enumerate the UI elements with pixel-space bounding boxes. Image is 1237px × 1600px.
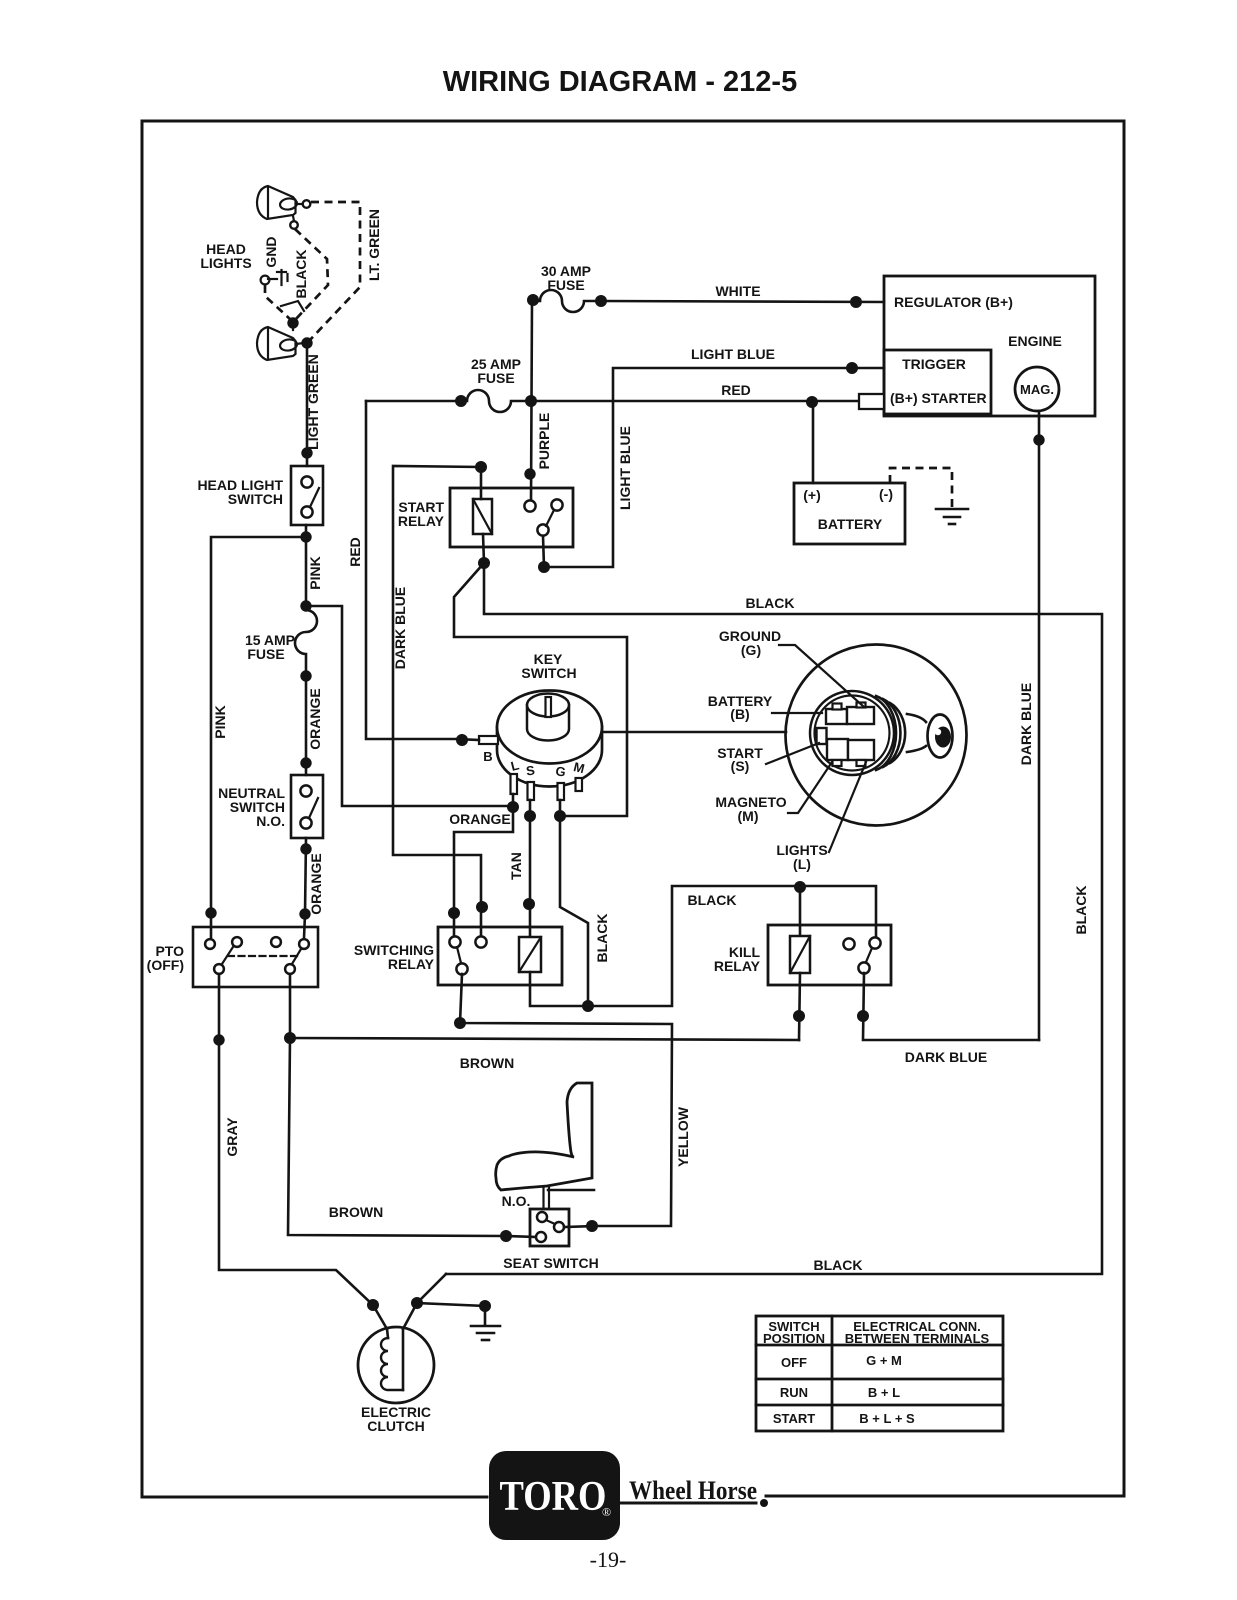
svg-text:SWITCH: SWITCH: [521, 665, 576, 681]
svg-text:PINK: PINK: [307, 556, 323, 589]
key switch SW3 (side view): [497, 691, 602, 787]
wire orange down to PTO: [305, 838, 306, 914]
node: light green at lamp2 terminal: [301, 337, 312, 348]
svg-text:WHITE: WHITE: [715, 283, 760, 299]
terminal M tab: [827, 739, 848, 760]
seat base line: [548, 1189, 594, 1192]
svg-text:S: S: [525, 762, 536, 778]
wire orange L to switching relay: [454, 807, 513, 938]
wire orange down: [305, 676, 308, 775]
svg-text:(+): (+): [803, 487, 821, 503]
fuse F2 25 AMP on red feed: [366, 390, 537, 412]
svg-text:DARK BLUE: DARK BLUE: [1018, 683, 1034, 765]
wire light green down to head light switch: [306, 345, 309, 466]
wire relay coil top: [480, 467, 483, 499]
wire gray diagonal into clutch: [373, 1305, 387, 1329]
wire red from fuse to starter terminal: [531, 400, 860, 403]
svg-text:ENGINE: ENGINE: [1008, 333, 1062, 349]
wire white to regulator: [601, 301, 884, 302]
node below neutral switch: [300, 843, 311, 854]
headlight lamp 2 (lower): [257, 327, 303, 360]
svg-text:DARK BLUE: DARK BLUE: [392, 587, 408, 669]
wire dark blue: relay feed loop: [393, 466, 481, 938]
svg-text:OFF: OFF: [781, 1355, 807, 1370]
seat switch plunger: [542, 1187, 544, 1209]
wire kill relay coil bottom to brown: [799, 973, 800, 1040]
svg-text:-19-: -19-: [590, 1547, 627, 1572]
terminal G tab: [847, 707, 874, 724]
svg-text:RED: RED: [721, 382, 751, 398]
gnd terminal circle: [261, 276, 270, 285]
kill relay K3: [768, 925, 891, 985]
svg-text:(-): (-): [879, 486, 893, 502]
svg-text:FUSE: FUSE: [247, 646, 284, 662]
terminal S tab: [817, 728, 827, 744]
seat switch SW4: [530, 1209, 569, 1246]
svg-text:WIRING DIAGRAM - 212-5: WIRING DIAGRAM - 212-5: [443, 66, 797, 98]
svg-text:REGULATOR (B+): REGULATOR (B+): [894, 294, 1013, 310]
svg-text:BROWN: BROWN: [329, 1204, 383, 1220]
trigger / starter box: [884, 350, 991, 414]
svg-text:START: START: [773, 1411, 815, 1426]
wire from key switch to connector view: [602, 731, 786, 734]
pin L: [511, 774, 518, 794]
svg-text:BROWN: BROWN: [460, 1055, 514, 1071]
svg-text:RUN: RUN: [780, 1385, 808, 1400]
node pink/orange junction: [300, 600, 311, 611]
svg-text:(S): (S): [731, 758, 750, 774]
wire brown horizontal to kill relay coil: [290, 1038, 799, 1040]
svg-text:LIGHTS: LIGHTS: [200, 255, 251, 271]
black label leader: [281, 301, 304, 311]
battery B1: [794, 483, 905, 544]
svg-text:TRIGGER: TRIGGER: [902, 356, 966, 372]
svg-text:YELLOW: YELLOW: [675, 1106, 691, 1167]
engine box: [884, 276, 1095, 416]
svg-text:B: B: [483, 749, 492, 764]
svg-text:RED: RED: [347, 537, 363, 567]
wire lt. green (dashed) lamp1 to lamp2: [309, 202, 360, 341]
wire red down-left to key switch B: [366, 401, 457, 739]
svg-text:RELAY: RELAY: [398, 513, 445, 529]
svg-text:BLACK: BLACK: [293, 250, 309, 299]
start relay K1: [450, 488, 573, 547]
chassis ground symbol (clutch): [471, 1326, 500, 1340]
node PTO pin4: [299, 908, 310, 919]
wire brown down to seat switch: [288, 1038, 537, 1237]
pin B: [479, 736, 498, 744]
battery ground symbol: [936, 509, 968, 524]
wire start relay switch output (light blue): [543, 536, 544, 567]
pin S: [528, 782, 535, 800]
wire tan S to switching relay coil: [529, 816, 532, 937]
svg-text:Wheel Horse: Wheel Horse: [629, 1476, 757, 1505]
svg-text:M: M: [572, 759, 586, 776]
svg-text:TAN: TAN: [508, 852, 524, 880]
fuse F1 30 AMP: [527, 290, 607, 312]
svg-text:RELAY: RELAY: [714, 958, 761, 974]
node below head light switch: [300, 531, 311, 542]
svg-text:L: L: [509, 757, 520, 773]
svg-text:(OFF): (OFF): [147, 957, 184, 973]
svg-text:FUSE: FUSE: [547, 277, 584, 293]
node S / tan: [524, 810, 536, 822]
svg-text:(L): (L): [793, 856, 811, 872]
svg-text:(M): (M): [738, 808, 759, 824]
svg-text:CLUTCH: CLUTCH: [367, 1418, 425, 1434]
svg-text:GND: GND: [263, 236, 279, 267]
svg-text:LT. GREEN: LT. GREEN: [366, 209, 382, 281]
wire pink to left column: [211, 537, 306, 913]
wire relay coil bottom node: [483, 534, 484, 563]
svg-text:G: G: [555, 763, 567, 779]
svg-text:MAG.: MAG.: [1020, 382, 1054, 397]
starter quick-connect terminal: [859, 394, 884, 409]
fuse F3 15 AMP: [295, 610, 317, 676]
PTO switch (OFF): [193, 913, 318, 987]
svg-text:DARK BLUE: DARK BLUE: [905, 1049, 987, 1065]
node: black/gnd junction above lamp2: [287, 317, 298, 328]
terminal L tab: [848, 740, 874, 760]
node below 15A fuse: [300, 670, 311, 681]
wire light blue to trigger: [546, 368, 884, 567]
wire gnd (dashed) to junction: [265, 285, 291, 320]
svg-text:ORANGE: ORANGE: [449, 811, 510, 827]
svg-text:B + L: B + L: [868, 1385, 900, 1400]
svg-text:N.O.: N.O.: [256, 813, 285, 829]
wire black diagonal into clutch: [403, 1274, 446, 1329]
pin M: [576, 778, 583, 791]
neutral switch SW2 N.O.: [291, 775, 323, 838]
magneto MAG: [1015, 367, 1059, 411]
svg-text:(B): (B): [730, 706, 749, 722]
wire brown from PTO down: [289, 974, 292, 1038]
headlight lamp 1 (upper): [257, 186, 310, 229]
seat drawing: [496, 1083, 592, 1190]
svg-text:BATTERY: BATTERY: [818, 516, 883, 532]
svg-text:G + M: G + M: [866, 1353, 902, 1368]
svg-text:N.O.: N.O.: [502, 1193, 531, 1209]
svg-text:(G): (G): [741, 642, 761, 658]
head light switch SW1: [291, 466, 323, 525]
svg-text:BLACK: BLACK: [1073, 886, 1089, 935]
wire dark blue from MAG down: [1038, 411, 1041, 1040]
node G: [554, 810, 566, 822]
node black/clutch/ground: [411, 1297, 423, 1309]
wire battery - to ground (dashed): [890, 468, 952, 507]
svg-text:LIGHT BLUE: LIGHT BLUE: [691, 346, 775, 362]
pin G: [558, 783, 565, 800]
wire orange branch to key switch L: [306, 606, 509, 806]
switching relay K2: [438, 927, 562, 985]
svg-text:ORANGE: ORANGE: [308, 853, 324, 914]
wire purple vertical 30A-25A-start relay: [531, 301, 532, 501]
svg-text:FUSE: FUSE: [477, 370, 514, 386]
node gray/clutch: [367, 1299, 379, 1311]
node PTO pin1: [205, 907, 216, 918]
node yellow at seat switch: [586, 1220, 598, 1232]
wire kill relay switch to dark blue: [863, 973, 1039, 1040]
node B with red wire: [456, 734, 468, 746]
node brown at seat switch: [500, 1230, 512, 1242]
wire black: relay node to right side: [446, 563, 1102, 1274]
svg-text:(B+) STARTER: (B+) STARTER: [890, 390, 987, 406]
key switch position table: [756, 1316, 1003, 1431]
wire black G down to junction: [560, 816, 588, 1006]
node L / orange: [507, 801, 519, 813]
svg-text:BLACK: BLACK: [814, 1257, 863, 1273]
wire tan coil bottom to kill relay top (black): [530, 886, 876, 1006]
node above switching relay pin1: [448, 907, 460, 919]
svg-text:TORO: TORO: [500, 1474, 607, 1520]
chassis ground symbol (headlights): [268, 270, 288, 285]
svg-text:®: ®: [602, 1505, 611, 1519]
svg-text:BLACK: BLACK: [746, 595, 795, 611]
wire gray from PTO down: [219, 974, 373, 1305]
svg-text:SWITCH: SWITCH: [228, 491, 283, 507]
svg-text:SEAT SWITCH: SEAT SWITCH: [503, 1255, 598, 1271]
svg-text:ORANGE: ORANGE: [307, 688, 323, 749]
node above switching relay pin2: [476, 901, 488, 913]
wire black (dashed) lamp1 terminal to junction: [294, 229, 328, 321]
svg-text:PINK: PINK: [212, 705, 228, 738]
wire to G terminal loop: [454, 563, 627, 816]
svg-text:GRAY: GRAY: [224, 1117, 240, 1157]
electric clutch M1: [358, 1327, 434, 1403]
terminal B tab: [826, 709, 847, 724]
svg-text:POSITION: POSITION: [763, 1331, 825, 1346]
svg-text:B + L + S: B + L + S: [859, 1411, 915, 1426]
border frame of diagram: [142, 121, 1124, 1497]
svg-text:BETWEEN TERMINALS: BETWEEN TERMINALS: [845, 1331, 990, 1346]
wire switching relay output to yellow: [460, 974, 672, 1226]
wire battery + to red: [812, 402, 815, 483]
wire to chassis ground: [417, 1303, 485, 1324]
svg-text:PURPLE: PURPLE: [536, 413, 552, 470]
svg-text:LIGHT BLUE: LIGHT BLUE: [617, 426, 633, 510]
key switch rear connector view: [786, 645, 967, 826]
TORO logo: [489, 1451, 620, 1540]
svg-text:BLACK: BLACK: [594, 914, 610, 963]
svg-text:RELAY: RELAY: [388, 956, 435, 972]
svg-text:BLACK: BLACK: [688, 892, 737, 908]
